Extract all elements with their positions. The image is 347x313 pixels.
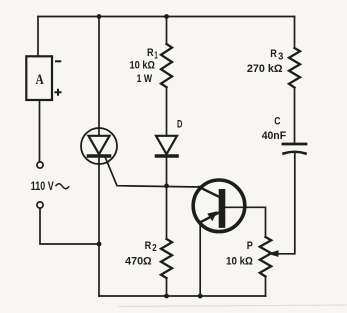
svg-text:3: 3	[278, 51, 284, 62]
svg-text:10 kΩ: 10 kΩ	[226, 256, 253, 268]
wire D cathode to node B	[166, 158, 168, 239]
svg-text:110 V: 110 V	[31, 179, 54, 193]
junction dot node gate	[164, 184, 169, 189]
potentiometer P wiper arrow	[267, 250, 278, 257]
wire thyristor anode	[98, 17, 100, 136]
wire C top to R3	[294, 88, 296, 144]
wire collector to P	[226, 207, 266, 237]
sine symbol	[56, 184, 70, 189]
thyristor TH1 triangle	[89, 136, 110, 154]
svg-text:R: R	[270, 48, 277, 60]
svg-text:470Ω: 470Ω	[125, 256, 152, 268]
wire R1 to D	[166, 87, 168, 135]
svg-text:R: R	[147, 47, 154, 59]
svg-text:10 kΩ: 10 kΩ	[130, 60, 156, 72]
resistor R1	[161, 44, 172, 87]
wire wiper of P	[277, 153, 295, 254]
wire R3 top	[294, 17, 296, 49]
transistor Q1 circle	[193, 180, 245, 232]
thyristor TH1 cathode bar	[89, 154, 110, 158]
wire P bottom	[265, 277, 267, 297]
resistor R2	[161, 239, 172, 278]
potentiometer P	[260, 237, 271, 277]
wire bottom rail	[99, 295, 266, 297]
junction dot bottom emitter	[198, 294, 203, 299]
faint scan line	[118, 305, 347, 307]
svg-text:C: C	[274, 115, 280, 127]
svg-text:D: D	[177, 119, 182, 131]
transistor Q1 base lead	[199, 187, 220, 197]
junction dot node source	[97, 242, 102, 247]
wire R1 branch top	[166, 17, 168, 45]
svg-text:P: P	[247, 240, 253, 252]
capacitor C plate bottom	[284, 152, 306, 154]
resistor R3	[289, 48, 300, 88]
capacitor C plate top	[283, 143, 306, 146]
junction dot bottom R2	[164, 294, 169, 299]
wire R2 bottom	[166, 278, 168, 296]
junction dot node top-mid	[164, 14, 169, 19]
svg-text:1 W: 1 W	[137, 73, 153, 85]
svg-text:270 kΩ: 270 kΩ	[247, 63, 283, 75]
wire source to node A	[40, 208, 99, 244]
label plus	[55, 89, 62, 96]
transistor Q1 base bar	[219, 192, 226, 224]
svg-text:A: A	[36, 72, 44, 88]
transistor Q1 emitter arrow	[207, 211, 217, 221]
svg-text:2: 2	[152, 243, 157, 254]
wire gate of thyristor	[106, 158, 200, 187]
svg-text:40nF: 40nF	[262, 130, 287, 142]
wire left drop to ammeter	[37, 17, 39, 57]
wire thyristor cathode down	[98, 158, 100, 296]
thyristor TH1 circle	[81, 128, 117, 164]
ammeter A1	[26, 56, 52, 100]
transistor Q1 emitter lead	[200, 213, 219, 223]
diode D triangle	[156, 136, 177, 154]
svg-text:R: R	[145, 240, 152, 252]
junction dot node top-left	[97, 14, 102, 19]
label minus	[55, 60, 61, 62]
wire top rail	[38, 16, 295, 18]
terminal T2	[37, 202, 43, 208]
terminal T1	[37, 162, 43, 168]
wire ammeter bottom lead	[39, 100, 41, 162]
wire emitter down	[199, 222, 201, 296]
diode D cathode bar	[157, 154, 178, 158]
